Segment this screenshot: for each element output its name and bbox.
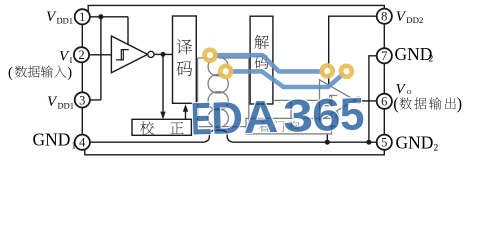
wire output buffer to pin6 bbox=[361, 100, 377, 102]
svg-text:4: 4 bbox=[79, 136, 86, 150]
svg-text:2: 2 bbox=[78, 48, 84, 62]
svg-text:V: V bbox=[46, 9, 57, 25]
svg-text:5: 5 bbox=[339, 88, 365, 140]
watermark pad 4 bbox=[339, 64, 355, 80]
svg-text:V: V bbox=[47, 94, 58, 110]
watermark pad 3 bbox=[319, 63, 335, 79]
svg-text:7: 7 bbox=[381, 49, 387, 63]
svg-text:GND: GND bbox=[396, 132, 434, 152]
svg-text:O: O bbox=[407, 89, 412, 96]
svg-text:): ) bbox=[67, 65, 72, 81]
svg-text:DD2: DD2 bbox=[406, 15, 423, 25]
inverter bubble U1 output bbox=[148, 51, 154, 57]
pin 5 bbox=[377, 135, 392, 150]
node junction watchdog ground bbox=[325, 140, 330, 145]
svg-text:2: 2 bbox=[429, 55, 434, 65]
wire arrow up from correction box to encoder bbox=[185, 111, 187, 119]
wire schmitt output to encoder box bbox=[154, 53, 173, 55]
pin 7 bbox=[377, 48, 392, 63]
svg-text:V: V bbox=[396, 9, 407, 25]
bubble U2 output bbox=[355, 97, 361, 103]
svg-text:5: 5 bbox=[381, 136, 387, 150]
watermark pad 2 bbox=[218, 64, 234, 80]
watchdog box 看门狗 bbox=[246, 118, 332, 133]
svg-text:A: A bbox=[243, 91, 279, 143]
wire pin8 VDD2 to output buffer power bbox=[329, 16, 377, 85]
wire arrow down to correction box bbox=[162, 54, 164, 112]
watermark logo traces bbox=[190, 47, 365, 144]
svg-text:6: 6 bbox=[311, 89, 341, 141]
correction box 校正 bbox=[132, 119, 191, 135]
transformer T1 isolation bbox=[198, 57, 249, 127]
svg-text:I: I bbox=[70, 55, 73, 65]
svg-text:2: 2 bbox=[434, 143, 439, 153]
watermark pad 1 bbox=[202, 47, 218, 63]
node junction pin7 ground bbox=[366, 140, 371, 145]
svg-text:V: V bbox=[59, 49, 70, 65]
wire VDD1 vertical pin1 to pin3 bbox=[90, 17, 101, 100]
svg-text:(: ( bbox=[393, 94, 399, 113]
schmitt buffer U1 bbox=[111, 36, 147, 73]
wire GND1 pin4 to pin5 with hop over transformer bbox=[90, 130, 377, 142]
wire decoder to output buffer bbox=[273, 100, 320, 118]
svg-text:(: ( bbox=[8, 65, 13, 81]
svg-text:8: 8 bbox=[381, 10, 387, 24]
node junction at schmitt output bbox=[161, 52, 166, 57]
pin 2 bbox=[74, 47, 89, 62]
wire pin2 input to schmitt bbox=[89, 54, 111, 56]
pin 4 bbox=[75, 135, 90, 150]
IC package left edge through pins bbox=[81, 17, 83, 142]
pin 6 bbox=[377, 94, 392, 109]
svg-text:D: D bbox=[210, 92, 244, 144]
svg-text:6: 6 bbox=[381, 95, 387, 109]
svg-text:): ) bbox=[457, 94, 463, 113]
svg-text:GND: GND bbox=[395, 44, 433, 64]
svg-text:3: 3 bbox=[282, 90, 314, 142]
wire watchdog to output buffer arrow bbox=[332, 117, 338, 126]
svg-text:GND: GND bbox=[33, 130, 71, 150]
svg-text:1: 1 bbox=[79, 10, 85, 24]
wire VDD1 pin1 to buffer power branch bbox=[90, 16, 128, 18]
svg-text:1: 1 bbox=[72, 142, 77, 152]
svg-text:DD1: DD1 bbox=[58, 100, 75, 110]
IC package outline bbox=[85, 5, 385, 154]
decoder box 解码 bbox=[250, 16, 273, 104]
pin 1 bbox=[75, 9, 90, 24]
encoder box 译码 bbox=[173, 16, 197, 103]
pin 8 bbox=[377, 9, 392, 24]
output buffer U2 bbox=[320, 80, 356, 121]
wire branch down to schmitt buffer top bbox=[127, 17, 129, 45]
pin 3 bbox=[75, 92, 90, 107]
watermark text EDA365 bbox=[190, 88, 365, 144]
wire pin7 to ground rail bbox=[369, 56, 377, 142]
svg-text:DD1: DD1 bbox=[57, 16, 74, 26]
svg-text:E: E bbox=[190, 93, 212, 145]
wire watchdog ground drop bbox=[326, 134, 328, 142]
node junction at pin1 rail bbox=[98, 14, 103, 19]
svg-text:3: 3 bbox=[79, 93, 85, 107]
